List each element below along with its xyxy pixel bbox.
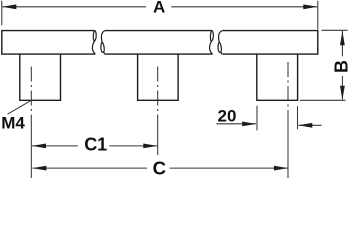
arrowhead 20 right (pointing left) [298,123,312,128]
centerline of post 2 extension down to C1 dimension [157,120,159,155]
svg-text:C: C [153,158,166,178]
arrowhead C right [274,166,288,171]
dimension A line [2,6,317,8]
centerline of post 1 extension down to C dimension [30,120,32,178]
dimension 20 leader line with arrow from left [217,123,256,125]
centerline of post 1 (dash-dot) [30,67,32,121]
post 1 (left screw post) [20,54,61,100]
dimension 20 extension line left [256,106,258,131]
dimension C1 line [32,145,157,147]
centerline of post 3 extension down to C dimension [287,120,289,178]
arrowhead C left [32,166,46,171]
centerline of post 3 (dash-dot) [287,62,289,120]
svg-text:M4: M4 [1,114,25,133]
dimension 20 leader line with arrow from right [299,124,322,126]
break symbol 1 right edge [101,31,105,54]
arrowhead C1 right [143,144,157,149]
arrowhead 20 left (pointing right) [242,122,256,127]
arrowhead A left [2,4,16,9]
post 3 (right screw post) [257,54,298,100]
svg-text:C1: C1 [84,134,107,154]
post 2 (middle screw post) [138,54,179,100]
bar segment 1 (left piece of handle rail) [2,31,96,54]
bar segment 2 (middle piece of handle rail) [105,31,213,54]
svg-text:20: 20 [218,106,237,125]
dimension B line [341,31,343,100]
arrowhead B top [340,31,345,45]
dimension B extension line bottom [300,99,346,101]
dimension A extension line right [317,1,319,30]
svg-text:B: B [331,60,350,73]
dimension A extension line left [1,1,3,25]
break symbol 2 left edge [210,31,214,54]
svg-text:A: A [153,0,165,17]
leader line from M4 label to post 1 hole [8,101,31,114]
dimension 20 extension line right [297,106,299,129]
centerline of post 2 (dash-dot) [157,67,159,121]
arrowhead A right [303,4,317,9]
arrowhead B bottom [340,86,345,100]
bar segment 3 (right piece of handle rail) [222,31,318,54]
break symbol 1 left edge [92,31,96,54]
arrowhead C1 left [32,144,46,149]
dimension B extension line top [322,29,348,31]
dimension C line [32,167,288,169]
break symbol 2 right edge [218,31,222,54]
